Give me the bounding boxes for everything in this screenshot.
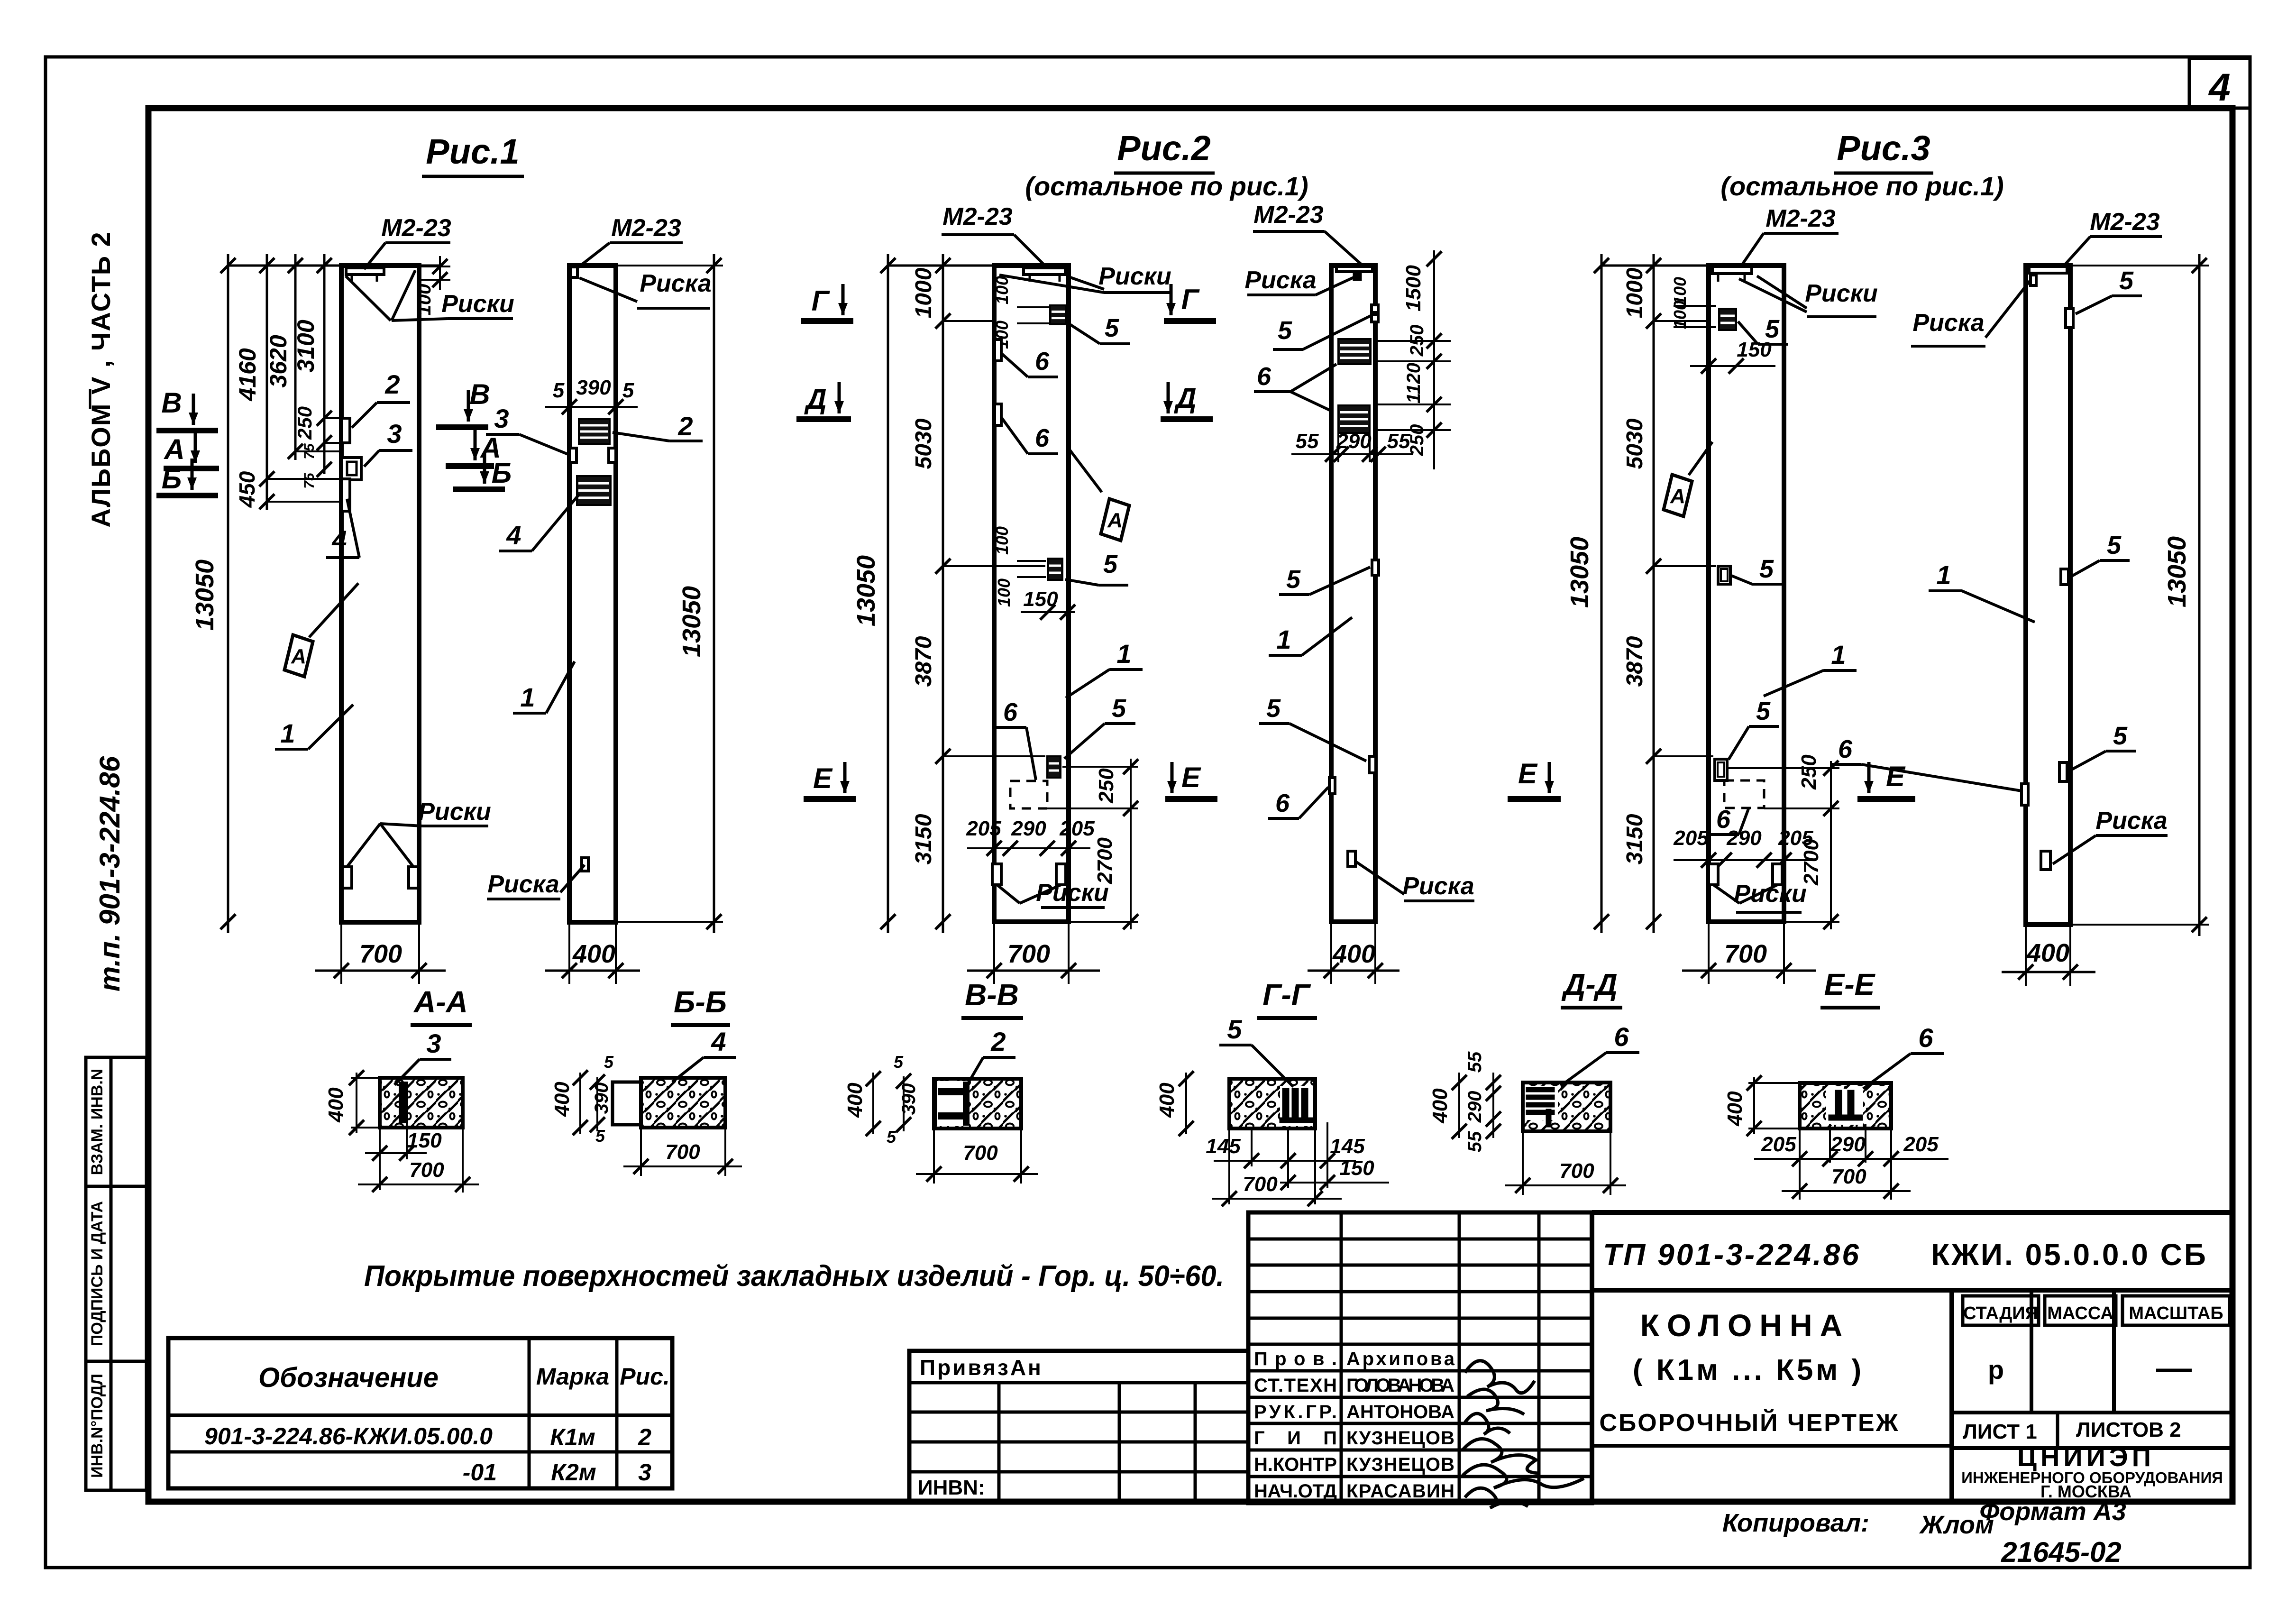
svg-text:АНТОНОВА: АНТОНОВА (1346, 1402, 1454, 1422)
fig1 embed plate item4 front (577, 476, 611, 505)
svg-text:1000: 1000 (1622, 267, 1647, 318)
svg-text:СТАДИЯ: СТАДИЯ (1963, 1303, 2038, 1323)
svg-text:Е: Е (1181, 762, 1201, 793)
svg-text:250: 250 (293, 406, 316, 440)
privyazan table (909, 1351, 1248, 1502)
svg-text:Е: Е (1886, 761, 1906, 792)
svg-text:А: А (1107, 509, 1123, 532)
svg-text:2: 2 (677, 411, 693, 441)
svg-text:Е: Е (813, 762, 833, 794)
svg-text:Риски: Риски (1098, 263, 1171, 290)
svg-text:3870: 3870 (1622, 636, 1647, 687)
fig3 column front view (700) (1709, 266, 1784, 922)
svg-text:5: 5 (1756, 697, 1771, 725)
svg-text:145: 145 (1206, 1135, 1241, 1158)
svg-text:700: 700 (1831, 1165, 1866, 1188)
fig1 dim lines 4160 3620 3100 (266, 254, 268, 510)
fig2 top plate col2 (1336, 266, 1372, 272)
svg-text:Б-Б: Б-Б (674, 985, 727, 1019)
svg-text:21645-02: 21645-02 (2001, 1536, 2122, 1568)
svg-text:13050: 13050 (677, 586, 706, 657)
fig1 embed plate item2 front (579, 419, 610, 444)
svg-text:Риска: Риска (1244, 266, 1316, 294)
svg-text:75: 75 (302, 472, 317, 489)
fig2 bottom dim 700 (993, 922, 995, 984)
svg-text:390: 390 (591, 1083, 612, 1114)
fig1 embed item4 col1 edge (341, 479, 350, 511)
svg-text:400: 400 (1723, 1091, 1747, 1127)
svg-text:100: 100 (1670, 301, 1690, 329)
fig2 top embed plate col1 (1024, 268, 1065, 275)
svg-text:290: 290 (1726, 826, 1762, 850)
fig3 lower item5 (1715, 759, 1727, 780)
svg-text:400: 400 (324, 1087, 348, 1123)
svg-text:5030: 5030 (911, 418, 936, 469)
svg-text:Риска: Риска (487, 871, 559, 898)
fig1 bottom dim 400 (568, 922, 570, 984)
svg-text:5: 5 (1112, 694, 1126, 723)
svg-text:А: А (1670, 485, 1685, 508)
svg-text:КУЗНЕЦОВ: КУЗНЕЦОВ (1346, 1454, 1454, 1475)
svg-text:( К1м ... К5м ): ( К1м ... К5м ) (1633, 1354, 1864, 1386)
svg-text:700: 700 (409, 1158, 444, 1182)
svg-text:290: 290 (1830, 1133, 1866, 1156)
svg-text:390: 390 (576, 376, 611, 399)
fig2 plates item6 col2 (1338, 339, 1371, 364)
svg-text:Б: Б (492, 457, 512, 489)
svg-text:Б: Б (162, 463, 182, 495)
svg-text:Рис.2: Рис.2 (1117, 128, 1210, 168)
svg-text:Обозначение: Обозначение (258, 1362, 439, 1393)
fig1 riski top V col1 (346, 276, 391, 321)
svg-text:5: 5 (1278, 316, 1292, 345)
section D-D body (1523, 1083, 1610, 1131)
svg-text:700: 700 (359, 940, 402, 968)
svg-text:1: 1 (1936, 560, 1951, 590)
svg-text:5: 5 (1227, 1014, 1242, 1044)
svg-text:55: 55 (1387, 430, 1410, 453)
svg-text:КЖИ. 05.0.0.0 СБ: КЖИ. 05.0.0.0 СБ (1931, 1238, 2208, 1272)
inner drawing frame (148, 108, 2232, 1502)
svg-text:СБОРОЧНЫЙ ЧЕРТЕЖ: СБОРОЧНЫЙ ЧЕРТЕЖ (1599, 1409, 1899, 1437)
svg-text:5030: 5030 (1622, 418, 1647, 469)
svg-text:М2-23: М2-23 (942, 203, 1012, 230)
svg-text:3100: 3100 (293, 320, 319, 372)
svg-text:ЛИСТОВ 2: ЛИСТОВ 2 (2076, 1418, 2181, 1441)
svg-text:Г: Г (1181, 284, 1200, 315)
svg-text:МАССА: МАССА (2047, 1303, 2113, 1323)
svg-text:Рис.: Рис. (620, 1363, 670, 1390)
svg-text:13050: 13050 (2163, 536, 2191, 607)
svg-text:Н.КОНТР: Н.КОНТР (1254, 1454, 1337, 1475)
svg-text:Риска: Риска (640, 270, 711, 297)
title block frame (1592, 1210, 2232, 1215)
fig1 left dimension chain 13050 (227, 254, 229, 933)
fig2 right dim chain 1500 250 1120 250 (1433, 250, 1435, 469)
svg-text:Е: Е (1518, 758, 1538, 789)
svg-text:290: 290 (1464, 1091, 1485, 1123)
svg-text:250: 250 (1797, 754, 1820, 790)
fig1 embed item3 col1 edge (341, 458, 361, 480)
svg-text:4160: 4160 (234, 348, 261, 401)
svg-text:А: А (291, 645, 306, 668)
svg-text:5: 5 (1103, 550, 1118, 578)
svg-text:205: 205 (1059, 817, 1095, 840)
svg-text:55: 55 (1464, 1051, 1485, 1073)
fig2 bottom dim 400 (1330, 922, 1332, 984)
svg-text:М2-23: М2-23 (1253, 201, 1323, 229)
svg-text:400: 400 (550, 1082, 574, 1117)
svg-text:Копировал:: Копировал: (1722, 1509, 1869, 1537)
signatures scribbles (1465, 1361, 1535, 1393)
svg-text:3870: 3870 (911, 636, 936, 687)
svg-text:Рис.1: Рис.1 (426, 132, 519, 171)
fig3 dims 100 100 150 (1674, 305, 1716, 307)
svg-text:т.п. 901-3-224.86: т.п. 901-3-224.86 (94, 756, 126, 991)
svg-text:150: 150 (1737, 338, 1772, 361)
svg-text:ТП 901-3-224.86: ТП 901-3-224.86 (1603, 1238, 1861, 1272)
svg-text:6: 6 (1003, 698, 1018, 726)
svg-text:Д: Д (1173, 382, 1196, 414)
svg-text:1: 1 (1831, 640, 1846, 670)
fig3 top plate col1 (1712, 266, 1752, 274)
svg-text:Риска: Риска (2095, 807, 2167, 835)
svg-text:2700: 2700 (1800, 839, 1823, 886)
svg-text:5: 5 (604, 1052, 614, 1072)
svg-text:4: 4 (331, 525, 347, 555)
fig2 dim chain 1000 5030 3870 3150 (942, 254, 944, 933)
svg-text:400: 400 (2026, 939, 2069, 967)
svg-text:1500: 1500 (1402, 265, 1425, 312)
section E-E body (1800, 1083, 1891, 1129)
svg-text:100: 100 (414, 284, 435, 316)
svg-text:ЦНИИЭП: ЦНИИЭП (2017, 1442, 2155, 1472)
fig3 top item5 (1719, 309, 1736, 330)
svg-text:КОЛОННА: КОЛОННА (1640, 1308, 1850, 1343)
svg-text:ГОЛОВАНОВА: ГОЛОВАНОВА (1346, 1375, 1454, 1396)
fig3 dashed opening (1724, 780, 1764, 808)
signature grid (1248, 1212, 1592, 1503)
svg-text:400: 400 (843, 1083, 867, 1118)
svg-text:205: 205 (1761, 1133, 1796, 1156)
fig1 right dim 13050 (616, 265, 723, 266)
svg-text:5: 5 (2107, 531, 2122, 560)
svg-text:390: 390 (898, 1083, 919, 1115)
svg-text:6: 6 (1275, 789, 1290, 817)
svg-text:К2м: К2м (551, 1459, 596, 1486)
svg-text:М2-23: М2-23 (1765, 205, 1835, 232)
svg-text:Марка: Марка (536, 1363, 609, 1390)
svg-text:1: 1 (280, 718, 295, 748)
svg-text:КРАСАВИН: КРАСАВИН (1346, 1481, 1454, 1502)
svg-text:Риски: Риски (441, 290, 514, 318)
svg-text:1: 1 (1276, 624, 1291, 654)
svg-text:МАСШТАБ: МАСШТАБ (2129, 1303, 2223, 1323)
svg-text:Г-Г: Г-Г (1262, 978, 1311, 1012)
svg-text:400: 400 (1332, 940, 1375, 968)
svg-text:2: 2 (384, 369, 400, 399)
fig2 dim chain 13050 (887, 254, 889, 933)
svg-text:М2-23: М2-23 (611, 214, 681, 242)
fig1 riski bottom col1 (342, 867, 352, 888)
svg-text:Риска: Риска (1402, 872, 1474, 900)
svg-text:5: 5 (887, 1127, 896, 1147)
fig3 dim chain 13050 (1601, 254, 1603, 933)
svg-text:(остальное по рис.1): (остальное по рис.1) (1025, 171, 1308, 201)
svg-text:13050: 13050 (852, 555, 880, 626)
fig3 mid item5 (1718, 566, 1730, 584)
svg-text:400: 400 (572, 940, 615, 968)
svg-text:700: 700 (665, 1140, 700, 1164)
svg-text:3: 3 (387, 419, 402, 449)
svg-text:5: 5 (2119, 266, 2134, 295)
fig1 riska mark top col2 (571, 267, 577, 277)
svg-text:А: А (163, 433, 184, 465)
fig1 item3 marks col2 (569, 448, 576, 462)
svg-text:6: 6 (1838, 735, 1853, 763)
svg-text:3150: 3150 (1622, 814, 1647, 864)
svg-text:901-3-224.86-КЖИ.05.00.0: 901-3-224.86-КЖИ.05.00.0 (204, 1423, 493, 1450)
fig2 rhombus A (1101, 499, 1129, 541)
svg-text:Формат А3: Формат А3 (1979, 1497, 2126, 1526)
left stamp boxes (86, 1057, 111, 1490)
designation table (168, 1338, 672, 1488)
fig3 column side view (400) (2026, 266, 2070, 925)
svg-text:Д-Д: Д-Д (1561, 967, 1618, 1001)
fig3 bottom dim 400 (2025, 925, 2027, 986)
svg-text:250: 250 (1095, 768, 1118, 804)
svg-text:СТ.ТЕХН: СТ.ТЕХН (1254, 1375, 1337, 1396)
section B-B body (613, 1082, 641, 1125)
svg-text:5: 5 (1286, 565, 1301, 594)
svg-text:Г: Г (812, 285, 831, 317)
svg-text:6: 6 (1614, 1022, 1629, 1052)
svg-text:5: 5 (894, 1052, 904, 1072)
svg-text:450: 450 (235, 471, 259, 508)
fig1 riska bottom col2 (582, 858, 588, 871)
fig1 top dims 5 390 5 col2 (545, 406, 638, 408)
svg-text:4: 4 (2208, 66, 2231, 109)
svg-text:р: р (1988, 1355, 2004, 1385)
svg-text:290: 290 (1336, 430, 1372, 453)
svg-text:3: 3 (638, 1459, 651, 1486)
fig1 bottom dim 700 (340, 922, 342, 984)
svg-text:6: 6 (1918, 1023, 1933, 1053)
svg-text:5: 5 (595, 1126, 605, 1146)
stadia block (2030, 1290, 2033, 1413)
svg-text:Риски: Риски (1734, 880, 1807, 908)
svg-text:700: 700 (1559, 1159, 1594, 1183)
svg-text:5: 5 (1105, 314, 1119, 342)
fig2 items 6 on left edge (995, 339, 1001, 361)
svg-text:5: 5 (622, 379, 634, 402)
svg-text:Риска: Риска (1912, 309, 1984, 337)
svg-text:5: 5 (1266, 694, 1281, 723)
svg-text:НАЧ.ОТД: НАЧ.ОТД (1254, 1481, 1337, 1502)
svg-text:М2-23: М2-23 (2090, 208, 2159, 236)
fig1 top embed plate col1 (346, 268, 384, 275)
svg-text:Риски: Риски (1805, 280, 1878, 307)
svg-text:Е-Е: Е-Е (1824, 967, 1876, 1001)
svg-text:Покрытие поверхностей заклад: Покрытие поверхностей закладных изделий … (364, 1260, 1224, 1293)
svg-text:150: 150 (1339, 1156, 1374, 1180)
svg-text:700: 700 (1243, 1173, 1278, 1196)
fig2 dims 100 100 top (1017, 306, 1049, 308)
svg-text:М2-23: М2-23 (381, 214, 451, 242)
svg-text:4: 4 (711, 1027, 726, 1056)
svg-text:ПОДПИСЬ И ДАТА: ПОДПИСЬ И ДАТА (88, 1201, 106, 1346)
svg-text:В: В (469, 378, 490, 410)
svg-text:700: 700 (1007, 940, 1050, 968)
fig3 right dim 13050 (2070, 265, 2209, 266)
list row (1952, 1446, 2232, 1450)
svg-text:6: 6 (1257, 362, 1271, 391)
svg-text:205: 205 (1673, 826, 1709, 850)
svg-text:290: 290 (1011, 817, 1046, 840)
page number box (2189, 58, 2250, 108)
svg-text:Рис.3: Рис.3 (1837, 128, 1930, 168)
section V-V body (934, 1079, 1021, 1129)
svg-text:1: 1 (520, 682, 535, 712)
fig2 top item5 (1050, 305, 1066, 324)
fig2 middle item5 (1048, 559, 1062, 580)
fig2 riska bottom col2 (1348, 851, 1355, 866)
svg-text:100: 100 (994, 578, 1014, 607)
svg-text:145: 145 (1330, 1135, 1365, 1158)
svg-text:700: 700 (1724, 940, 1767, 968)
svg-text:6: 6 (1035, 347, 1050, 376)
svg-text:2700: 2700 (1093, 837, 1116, 884)
fig1 dim 100 top (419, 266, 450, 267)
svg-text:2: 2 (638, 1424, 651, 1450)
svg-text:205: 205 (966, 817, 1001, 840)
fig1 embed item2 col1 edge (341, 418, 350, 443)
fig3 top plate col2 (2029, 266, 2067, 273)
svg-text:К1м: К1м (550, 1424, 595, 1450)
svg-text:Риски: Риски (418, 798, 491, 826)
svg-text:3150: 3150 (911, 814, 936, 864)
svg-text:В: В (161, 387, 182, 419)
fig2 riski bottom (992, 864, 1001, 885)
svg-text:13050: 13050 (191, 560, 219, 631)
svg-text:ИНВN:: ИНВN: (918, 1476, 985, 1499)
svg-text:(остальное по рис.1): (остальное по рис.1) (1720, 171, 2003, 201)
svg-text:3620: 3620 (265, 335, 292, 387)
fig3 riski bottom (1709, 864, 1718, 885)
svg-text:205: 205 (1903, 1133, 1939, 1156)
svg-text:А-А: А-А (413, 985, 468, 1019)
svg-text:ИНВ.N°ПОДЛ: ИНВ.N°ПОДЛ (88, 1374, 106, 1478)
svg-text:100: 100 (992, 526, 1012, 555)
fig3 riska bottom col2 (2041, 851, 2050, 870)
fig2 lower item5 (1047, 756, 1061, 778)
svg-text:55: 55 (1296, 430, 1319, 453)
svg-text:4: 4 (506, 520, 521, 550)
fig3 dim chain 1000 5030 3870 3150 (1653, 254, 1655, 933)
svg-text:3: 3 (494, 404, 509, 433)
svg-text:55: 55 (1464, 1131, 1485, 1152)
svg-text:5: 5 (2113, 722, 2128, 750)
svg-text:ПривязАн: ПривязАн (920, 1355, 1043, 1380)
svg-text:1: 1 (1116, 639, 1131, 669)
fig1 column K side view (400) (569, 266, 616, 922)
svg-text:5: 5 (1759, 555, 1774, 583)
svg-text:ВЗАМ. ИНВ.N: ВЗАМ. ИНВ.N (88, 1069, 106, 1175)
section G-G body (1229, 1079, 1315, 1129)
svg-text:2: 2 (990, 1027, 1006, 1056)
svg-text:150: 150 (407, 1129, 442, 1152)
svg-text:Д: Д (804, 383, 826, 415)
fig1 column K front view (700) (341, 266, 419, 922)
svg-text:Риски: Риски (1036, 879, 1109, 907)
fig2 column front view (700) (994, 266, 1069, 922)
section A-A body (380, 1078, 463, 1128)
fig2 column side view (400) (1331, 266, 1375, 922)
svg-text:6: 6 (1035, 424, 1050, 452)
svg-text:400: 400 (1155, 1083, 1179, 1118)
svg-text:АЛЬБОМ V , ЧАСТЬ 2: АЛЬБОМ V , ЧАСТЬ 2 (86, 231, 116, 527)
svg-text:3: 3 (426, 1028, 441, 1058)
svg-text:400: 400 (1428, 1088, 1452, 1124)
svg-text:1000: 1000 (911, 267, 936, 318)
svg-text:В-В: В-В (965, 978, 1019, 1012)
svg-text:КУЗНЕЦОВ: КУЗНЕЦОВ (1346, 1428, 1454, 1449)
svg-text:5: 5 (553, 379, 565, 402)
fig3 bottom dim 700 (1708, 922, 1710, 984)
svg-text:700: 700 (963, 1141, 998, 1165)
fig1 rhombus A mark (284, 635, 313, 677)
svg-text:ЛИСТ 1: ЛИСТ 1 (1963, 1420, 2037, 1443)
fig3 rhombus A (1664, 475, 1692, 516)
svg-text:-01: -01 (463, 1459, 497, 1486)
svg-text:13050: 13050 (1565, 537, 1594, 608)
svg-text:100: 100 (992, 276, 1012, 304)
svg-text:1120: 1120 (1403, 363, 1424, 404)
